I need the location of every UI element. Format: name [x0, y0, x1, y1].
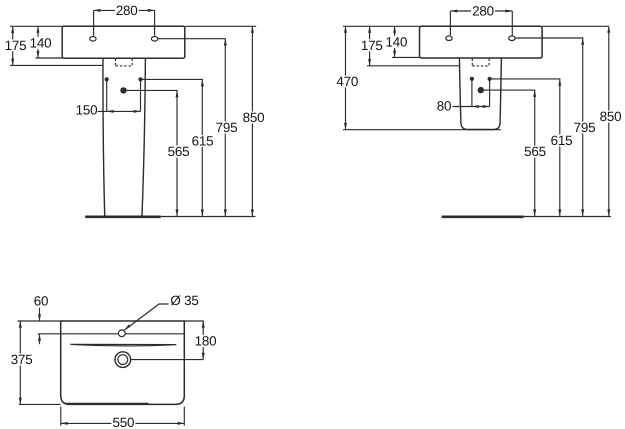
wire: drain dot to 565 line (right drawing) [481, 89, 536, 91]
arrow 795 bottom (right drawing) [581, 209, 584, 216]
floor line to dimension stack (right drawing) [524, 216, 611, 218]
arrow 140 bottom (right drawing) [393, 51, 396, 58]
arrow 470 bottom [344, 123, 347, 130]
fixing dot 2 [138, 77, 142, 81]
drain inner circle (plan) [118, 355, 128, 365]
wire: basin top extension to right (ref for 850) [542, 25, 609, 27]
arrow 150 left [107, 110, 114, 113]
arrow 140 bottom [37, 51, 40, 58]
arrow 140 top (right drawing) [393, 26, 396, 32]
arrow 175 top [11, 26, 14, 33]
wire: fixing dot 2 to 615 line (right drawing) [490, 78, 561, 80]
arrow 615 bottom [201, 209, 204, 216]
arrow 180 top [202, 321, 205, 328]
fixing dot 1 [105, 77, 109, 81]
arrow 280 left [94, 9, 101, 12]
label 550 [111, 417, 135, 429]
arrow 615 top (right drawing) [558, 79, 561, 86]
faucet hole (plan) [118, 330, 125, 337]
wire: basin top extension to right (ref for 850) [185, 25, 256, 27]
pedestal foot (thick base line) [85, 215, 161, 218]
svg-text:565: 565 [168, 144, 190, 159]
svg-text:140: 140 [386, 35, 408, 50]
label 565 [167, 146, 191, 158]
dimension 175 line [12, 26, 14, 65]
svg-text:470: 470 [336, 74, 358, 89]
arrow 60 top (pointing down to edge) [38, 314, 41, 321]
dimension 795 line [224, 39, 226, 217]
wire: basin top extension to left (ref for 470/175/140) [343, 25, 420, 27]
arrow 795 top (right drawing) [581, 38, 584, 45]
svg-text:Ø 35: Ø 35 [170, 293, 198, 308]
basin outline left [62, 26, 185, 58]
wire: basin top extension to left (ref for 175/140) [10, 25, 62, 27]
dimension 375 line [19, 321, 21, 404]
label 140 [29, 37, 53, 49]
drain outer circle (plan) [115, 352, 131, 368]
dimension 140 line (right drawing) [394, 26, 396, 57]
wire: hole level extension to 795 (right drawing) [515, 37, 583, 39]
arrow 175 bottom (right drawing) [368, 59, 371, 66]
faucet hole right (front view) [151, 37, 157, 42]
drain dot (right drawing) [478, 87, 484, 93]
arrow 850 top [251, 26, 254, 32]
wire: fixing dot 1 drop line [106, 81, 108, 111]
label 565 (right drawing) [523, 146, 547, 158]
inner bowl front edge lower curve [73, 345, 174, 346]
svg-text:550: 550 [113, 415, 135, 429]
label 470 [335, 75, 359, 87]
trap cover dashed box [116, 59, 133, 66]
wire: 550 extension left [60, 407, 62, 426]
label 615 [191, 135, 215, 147]
dimension 80 line [453, 106, 490, 108]
svg-text:280: 280 [116, 3, 138, 18]
wire: faucet hole level line (plan) [38, 333, 185, 335]
label 140 (right drawing) [384, 36, 408, 48]
wire: fixing dot 2 to 615 line [141, 78, 203, 80]
svg-text:565: 565 [524, 144, 546, 159]
pedestal right edge [142, 58, 145, 216]
svg-text:615: 615 [192, 134, 214, 149]
dimension 60 line upper segment [39, 308, 41, 321]
dimension 140 line [37, 26, 39, 58]
dimension 565 line (right drawing) [534, 90, 536, 216]
wire: 470 bottom reference line [343, 129, 501, 131]
arrow 80 right [483, 105, 490, 108]
arrow 615 bottom (right drawing) [558, 209, 561, 216]
wire: 280 extension right [154, 10, 156, 35]
dimension 850 line [251, 26, 253, 216]
label 850 [242, 112, 266, 124]
drain dot [120, 87, 126, 93]
arrow 60 bottom (pointing up to hole line) [38, 334, 41, 341]
arrow 140 top [37, 26, 40, 32]
svg-text:60: 60 [34, 294, 49, 309]
dimension 280 line [94, 9, 155, 11]
svg-text:375: 375 [11, 352, 33, 367]
pedestal left edge [103, 58, 105, 216]
wire: hole level extension to 795 [158, 38, 226, 40]
label 175 (right drawing) [360, 39, 384, 51]
wire: fixing dot 2 drop line [140, 81, 142, 111]
label 180 [194, 335, 218, 347]
arrow 565 top [176, 90, 179, 97]
svg-text:150: 150 [76, 103, 98, 118]
arrow 280 right [148, 9, 155, 12]
arrow 180 bottom [202, 353, 205, 360]
wire: 280 extension left (right drawing) [449, 11, 451, 35]
floor line to dimension stack [161, 216, 256, 218]
drain line (plan) [131, 359, 204, 361]
wire: 175 bottom reference line [10, 64, 103, 66]
arrow 375 bottom [19, 398, 22, 405]
svg-text:180: 180 [195, 334, 217, 349]
svg-text:80: 80 [437, 99, 452, 114]
arrow 375 top [19, 321, 22, 328]
arrow 615 top [201, 79, 204, 86]
label 280 (right drawing) [471, 5, 495, 17]
inner front rim line at bottom edge (plan) [64, 402, 149, 404]
arrow 565 bottom (right drawing) [533, 209, 536, 216]
faucet hole left (front view) [90, 37, 96, 42]
faucet hole right (right drawing) [509, 36, 515, 41]
label 850 (right drawing) [599, 111, 623, 123]
arrow 565 top (right drawing) [533, 90, 536, 97]
arrow 175 top (right drawing) [368, 26, 371, 32]
arrow 850 bottom (right drawing) [607, 209, 610, 216]
inner bowl front edge upper line [70, 343, 176, 345]
dimension 175 line (right drawing) [369, 26, 371, 66]
dimension 150 line [98, 110, 141, 112]
dimension 180 line [202, 321, 204, 360]
arrow 850 top (right drawing) [607, 26, 610, 32]
label 795 [215, 122, 239, 134]
wire: drain dot to 565 line [124, 89, 178, 91]
wire: top edge extension right (plan) [184, 320, 204, 322]
leader line to hole label [125, 304, 169, 330]
wire: 140 bottom reference line (right drawing) [392, 56, 420, 58]
arrow 850 bottom [251, 209, 254, 216]
arrow 280 right (right drawing) [506, 10, 513, 13]
dimension 795 line (right drawing) [582, 38, 584, 216]
arrow 175 bottom [11, 59, 14, 66]
arrow 550 left [61, 422, 68, 425]
wire: 280 extension right (right drawing) [511, 11, 513, 35]
wire: 140 bottom reference line [36, 57, 63, 59]
svg-text:140: 140 [30, 35, 52, 50]
arrow 150 right [134, 110, 141, 113]
svg-text:280: 280 [472, 4, 494, 19]
dimension 615 line [201, 79, 203, 216]
svg-text:850: 850 [243, 110, 265, 125]
trap cover dashed box (right drawing) [472, 59, 489, 66]
wire: 550 extension right [183, 407, 185, 426]
label 615 (right drawing) [550, 135, 574, 147]
dimension 470 line [345, 26, 347, 129]
basin plan outline [61, 321, 185, 404]
arrow 795 top [224, 39, 227, 46]
wire: fixing dot 1 drop line (right drawing) [471, 81, 473, 107]
faucet hole left (right drawing) [446, 36, 452, 41]
semi-pedestal outline [459, 58, 501, 130]
wire: 175 bottom reference line (right drawing) [367, 65, 460, 67]
dimension 565 line [176, 90, 178, 216]
arrow 470 top [344, 26, 347, 32]
wire: fixing dot 2 drop line (right drawing) [489, 81, 491, 107]
svg-text:175: 175 [361, 38, 383, 53]
dimension 615 line (right drawing) [559, 79, 561, 216]
wire: bottom edge extension left (plan) [19, 403, 61, 405]
dimension 60 line lower segment [39, 334, 41, 344]
label 795 (right drawing) [573, 122, 597, 134]
svg-text:615: 615 [551, 133, 573, 148]
svg-text:795: 795 [216, 120, 238, 135]
basin outline right [420, 26, 543, 58]
arrow 550 right [178, 422, 185, 425]
dimension 550 line [61, 422, 185, 424]
floor thick line (right drawing) [442, 215, 524, 218]
wire: 280 extension left [93, 10, 95, 35]
fixing dot 1 (right drawing) [470, 77, 474, 81]
dimension 280 line (right drawing) [450, 10, 512, 12]
arrow 80 left [472, 105, 479, 108]
label 175 [4, 40, 28, 52]
dimension 850 line (right drawing) [608, 26, 610, 216]
label 280 [115, 4, 139, 16]
svg-text:850: 850 [600, 109, 622, 124]
arrow leader at hole [125, 324, 131, 330]
arrow 565 bottom [176, 209, 179, 216]
fixing dot 2 (right drawing) [488, 77, 492, 81]
arrow 795 bottom [224, 209, 227, 216]
label 375 [10, 354, 34, 366]
arrow 280 left (right drawing) [450, 10, 457, 13]
wire: top edge extension left (plan) [18, 320, 61, 322]
svg-text:795: 795 [574, 120, 596, 135]
svg-text:175: 175 [5, 38, 27, 53]
